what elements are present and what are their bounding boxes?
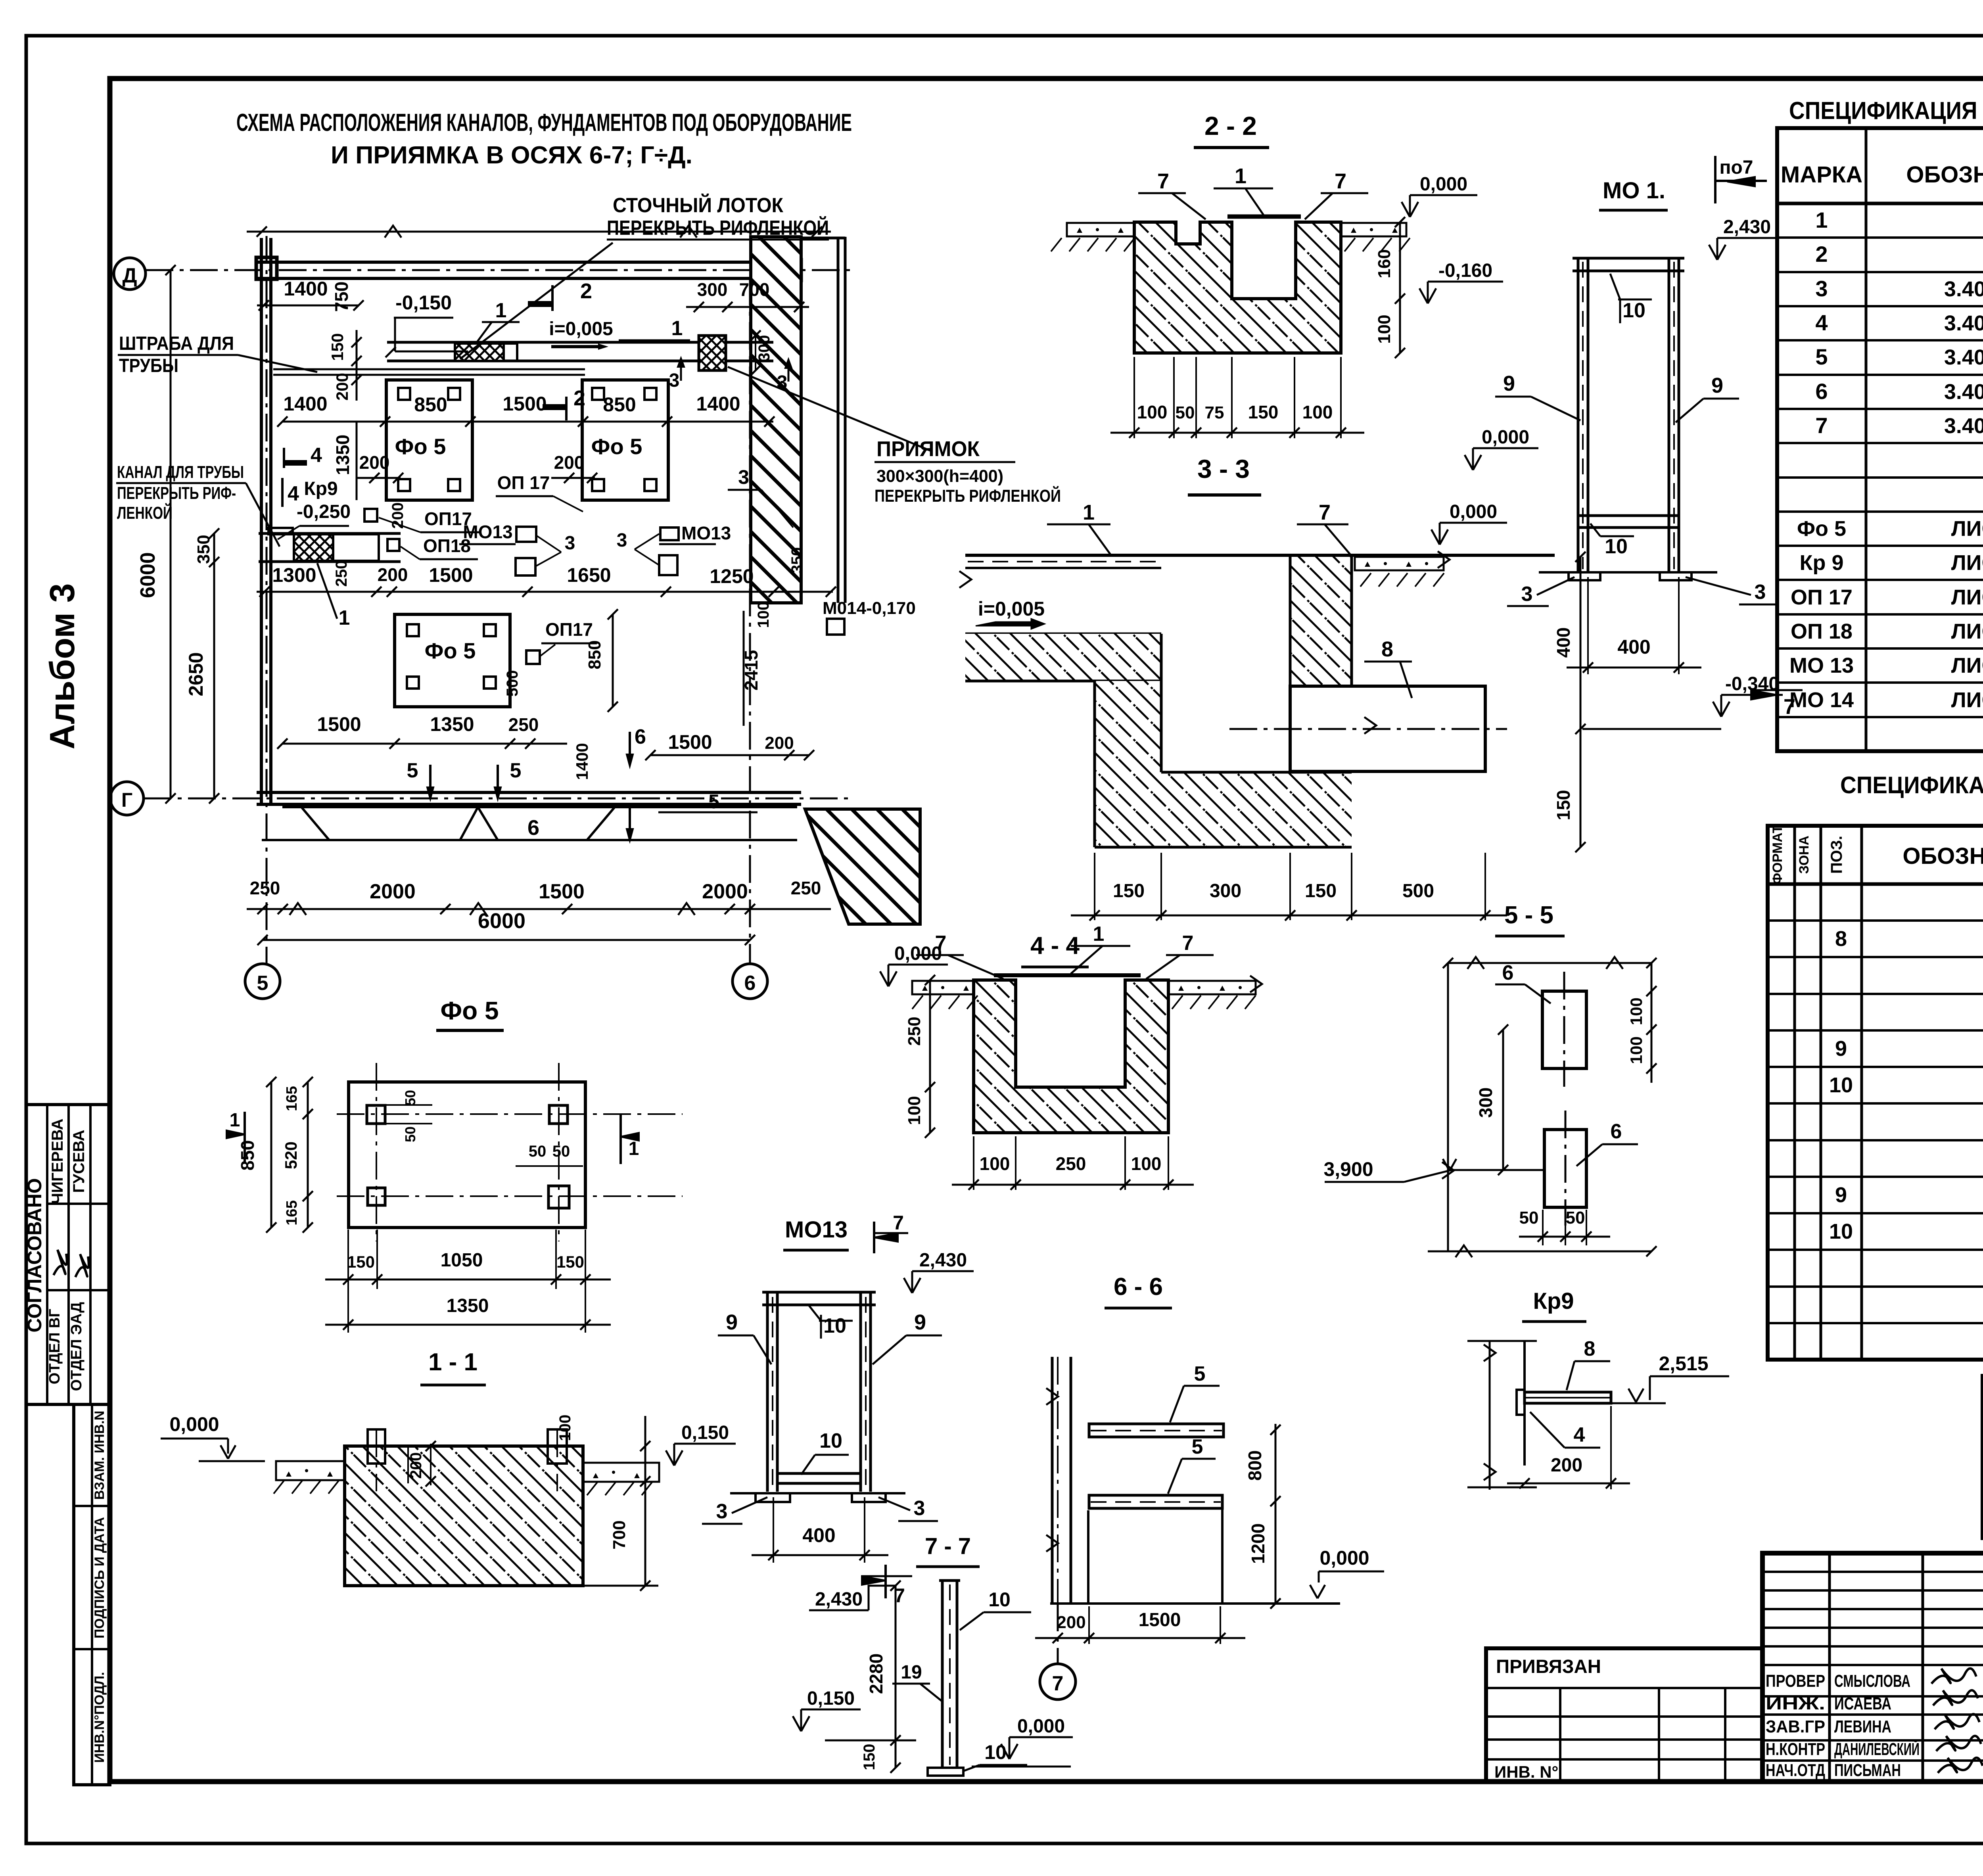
svg-text:Кр9: Кр9 <box>1533 1288 1574 1314</box>
svg-text:19: 19 <box>901 1662 922 1683</box>
lower channel hatched cover <box>294 534 333 561</box>
svg-text:5: 5 <box>257 972 268 995</box>
svg-text:по7: по7 <box>1719 157 1753 178</box>
section flag 6 upper <box>629 732 631 754</box>
svg-text:50: 50 <box>1176 403 1195 422</box>
section 4-4 left floor slab <box>912 981 974 994</box>
svg-text:1400: 1400 <box>283 393 327 415</box>
svg-text:7: 7 <box>1319 501 1331 524</box>
svg-text:6: 6 <box>1502 961 1514 984</box>
svg-text:ЗОНА: ЗОНА <box>1797 836 1812 874</box>
svg-text:10: 10 <box>1829 1220 1853 1243</box>
section 3-3 pipe 8 <box>1290 686 1485 771</box>
svg-text:50: 50 <box>402 1126 418 1142</box>
svg-text:Фо 5: Фо 5 <box>425 638 476 663</box>
svg-text:200: 200 <box>554 452 585 473</box>
svg-text:ОТДЕЛ ВГ: ОТДЕЛ ВГ <box>46 1309 63 1384</box>
section 4-4 bottom dims 100 250 100 <box>973 1136 974 1190</box>
svg-text:50: 50 <box>1566 1208 1585 1228</box>
svg-text:И ПРИЯМКА В ОСЯХ 6-7; Г÷Д.: И ПРИЯМКА В ОСЯХ 6-7; Г÷Д. <box>331 142 692 169</box>
svg-text:3: 3 <box>777 372 788 393</box>
right wall hatched band <box>751 237 801 603</box>
svg-text:200: 200 <box>389 503 407 529</box>
section 5-5 right vertical dim <box>1651 963 1653 1083</box>
svg-text:1 - 1: 1 - 1 <box>428 1348 478 1376</box>
svg-text:10: 10 <box>823 1314 846 1337</box>
svg-text:ПРИВЯЗАН: ПРИВЯЗАН <box>1496 1656 1601 1677</box>
svg-text:МО13: МО13 <box>463 522 512 542</box>
svg-text:9: 9 <box>1711 374 1723 397</box>
svg-text:1: 1 <box>629 1138 639 1159</box>
plan dim row 3 (1300 200 1500 1650 1250) <box>257 591 833 593</box>
svg-text:ЛИСТ 21: ЛИСТ 21 <box>1951 620 1983 643</box>
sidebar inventory cells <box>74 1404 110 1785</box>
svg-text:МАРКА: МАРКА <box>1781 162 1862 188</box>
svg-text:СПЕЦИФИКАЦИЯ К СХЕМЕ,РАСПОЛОЖЕ: СПЕЦИФИКАЦИЯ К СХЕМЕ,РАСПОЛОЖЕННОЙ НА ЛИ… <box>1789 97 1983 125</box>
svg-text:700: 700 <box>739 279 770 300</box>
svg-text:6: 6 <box>744 972 756 995</box>
svg-text:КАНАЛ ДЛЯ ТРУБЫ: КАНАЛ ДЛЯ ТРУБЫ <box>117 462 244 482</box>
svg-text:ПОЗ.: ПОЗ. <box>1828 836 1845 874</box>
channel small white block <box>504 343 517 361</box>
section 6-6 bottom dims 200 1500 <box>1088 1606 1090 1644</box>
section 6-6 pit below <box>1087 1510 1089 1604</box>
svg-text:3.400-6/76: 3.400-6/76 <box>1944 277 1983 301</box>
svg-text:800: 800 <box>1245 1450 1265 1481</box>
svg-text:4: 4 <box>311 444 322 467</box>
svg-text:3: 3 <box>716 1500 728 1523</box>
svg-text:165: 165 <box>284 1200 300 1225</box>
svg-text:ПОДПИСЬ И ДАТА: ПОДПИСЬ И ДАТА <box>92 1517 107 1638</box>
svg-text:Фо 5: Фо 5 <box>395 434 446 459</box>
svg-text:300: 300 <box>1475 1088 1496 1118</box>
svg-text:2 - 2: 2 - 2 <box>1204 111 1257 140</box>
section 2-2 bottom dims <box>1133 357 1135 438</box>
svg-text:100: 100 <box>1131 1153 1162 1174</box>
svg-text:3 - 3: 3 - 3 <box>1197 454 1250 483</box>
svg-text:1400: 1400 <box>696 393 740 415</box>
svg-text:200: 200 <box>378 564 408 585</box>
svg-text:100: 100 <box>1302 402 1333 422</box>
svg-text:3: 3 <box>565 533 575 554</box>
svg-text:МО13: МО13 <box>785 1217 848 1243</box>
svg-text:500: 500 <box>1402 880 1434 902</box>
svg-text:ОБОЗНАЧЕНИЕ: ОБОЗНАЧЕНИЕ <box>1902 843 1983 869</box>
svg-text:7: 7 <box>1815 413 1828 438</box>
title block left columns <box>1828 1553 1831 1782</box>
svg-text:10: 10 <box>819 1429 842 1452</box>
svg-text:1300: 1300 <box>272 564 316 586</box>
svg-text:1350: 1350 <box>430 713 474 735</box>
section 4-4 cover plate <box>994 973 1141 977</box>
op17 lower square <box>526 650 540 664</box>
svg-text:1: 1 <box>1083 501 1095 524</box>
axis D wall (top) <box>257 261 800 264</box>
svg-text:75: 75 <box>1205 403 1224 422</box>
section 1-1 dim 200 at bolt <box>407 1446 409 1483</box>
svg-text:i=0,005: i=0,005 <box>549 318 613 340</box>
foundation plate Fo5 upper-left <box>386 380 472 500</box>
section 3-3 bottom dims 150 300 150 500 <box>1094 853 1095 920</box>
mo13 markers right pair <box>660 528 679 540</box>
svg-text:7: 7 <box>1335 169 1346 193</box>
svg-text:2: 2 <box>1815 242 1828 267</box>
svg-text:ОП 17: ОП 17 <box>497 472 550 493</box>
svg-text:2: 2 <box>573 386 585 410</box>
svg-text:ПРОВЕР: ПРОВЕР <box>1766 1671 1825 1691</box>
svg-text:250: 250 <box>791 878 821 898</box>
svg-text:850: 850 <box>585 640 604 669</box>
plan dim row 2 through plates <box>282 421 773 423</box>
detail MO13 dim 400 <box>773 1497 774 1563</box>
axis D right end column cap <box>782 260 801 280</box>
section flag 6 lower <box>627 829 633 841</box>
section 2-2 right floor slab <box>1341 223 1406 236</box>
svg-text:10: 10 <box>1605 535 1628 558</box>
svg-text:ОП 17: ОП 17 <box>1791 585 1853 609</box>
svg-text:150: 150 <box>1113 880 1145 902</box>
detail MO13 bottom 7 flag <box>884 1565 887 1598</box>
svg-text:0,000: 0,000 <box>1420 174 1467 195</box>
svg-text:ЛЕНКОЙ: ЛЕНКОЙ <box>117 503 173 523</box>
axis bubble 5 <box>245 964 280 999</box>
svg-text:100: 100 <box>1375 315 1394 343</box>
svg-text:200: 200 <box>1057 1613 1085 1632</box>
svg-text:3: 3 <box>1815 276 1828 301</box>
svg-text:Н.КОНТР: Н.КОНТР <box>1766 1740 1825 1759</box>
section 4-4 left dims 250/100 <box>929 980 931 1133</box>
svg-text:200: 200 <box>1551 1455 1582 1476</box>
svg-text:ДАНИЛЕВСКИЙ: ДАНИЛЕВСКИЙ <box>1834 1739 1920 1759</box>
section 4-4 U-shaped concrete <box>974 980 1168 1133</box>
section 7-7 channel post <box>941 1581 944 1768</box>
title block signatures <box>1931 1669 1976 1684</box>
svg-text:ОП17: ОП17 <box>545 619 593 640</box>
svg-text:3: 3 <box>914 1497 925 1520</box>
detail Fo5 centerlines <box>337 1113 683 1115</box>
svg-text:СПЕЦИФИКАЦИЯ К КРОНШТЕЙНУ И ОП: СПЕЦИФИКАЦИЯ К КРОНШТЕЙНУ И ОПОРАМ. <box>1840 772 1983 798</box>
svg-text:3.400-6/76: 3.400-6/76 <box>1944 414 1983 438</box>
foundation plate Fo5 upper-right <box>582 380 668 500</box>
svg-text:9: 9 <box>726 1310 738 1334</box>
axis 5 wall column (left) <box>260 238 263 804</box>
svg-text:50: 50 <box>552 1143 570 1160</box>
svg-text:1350: 1350 <box>332 435 353 475</box>
svg-text:5: 5 <box>1194 1362 1206 1385</box>
svg-text:6000: 6000 <box>478 909 525 933</box>
plan overall dim 6000 <box>263 939 750 941</box>
section 1-1 concrete block <box>345 1446 583 1586</box>
svg-text:Кр9: Кр9 <box>304 478 338 499</box>
section 5-5 left vertical line <box>1447 963 1449 1251</box>
svg-text:200: 200 <box>359 452 390 473</box>
section 3-3 hatched bottom slab <box>1161 772 1352 847</box>
svg-text:Кр 9: Кр 9 <box>1800 551 1844 575</box>
svg-text:ОП 18: ОП 18 <box>1791 620 1853 643</box>
svg-text:-0,160: -0,160 <box>1438 260 1492 281</box>
svg-text:150: 150 <box>347 1253 375 1271</box>
plan dim row 1400/750 (top) <box>257 305 359 307</box>
svg-text:2650: 2650 <box>185 652 207 696</box>
svg-text:350: 350 <box>788 547 806 574</box>
svg-text:9: 9 <box>914 1310 926 1334</box>
svg-text:5: 5 <box>510 759 522 782</box>
svg-text:750: 750 <box>331 282 352 312</box>
lower channel (kanal dlya truby) <box>259 532 401 535</box>
op17 marker square middle <box>364 509 377 522</box>
svg-text:МО 14: МО 14 <box>1789 688 1854 712</box>
svg-text:4: 4 <box>288 482 299 505</box>
svg-text:100: 100 <box>905 1096 924 1125</box>
section 1-1 left floor slab <box>276 1461 345 1480</box>
svg-text:200: 200 <box>407 1452 425 1479</box>
svg-text:850: 850 <box>414 393 447 416</box>
plan bottom dim row (250 2000 1500 2000 250) <box>247 908 831 910</box>
svg-text:1500: 1500 <box>502 393 547 415</box>
svg-text:5: 5 <box>407 759 418 782</box>
section 2-2 right dim 160/100 <box>1399 222 1401 353</box>
svg-text:3.400-6/76: 3.400-6/76 <box>1944 311 1983 335</box>
svg-text:3,900: 3,900 <box>1323 1158 1373 1180</box>
axis G wall (bottom) <box>257 791 801 794</box>
svg-text:8: 8 <box>1584 1337 1596 1360</box>
svg-text:3: 3 <box>1521 583 1533 606</box>
svg-text:8: 8 <box>1835 927 1847 951</box>
svg-text:i=0,005: i=0,005 <box>978 598 1045 620</box>
svg-text:2,515: 2,515 <box>1659 1352 1708 1375</box>
svg-text:ИСАЕВА: ИСАЕВА <box>1834 1694 1891 1713</box>
svg-text:ОТДЕЛ ЭАД: ОТДЕЛ ЭАД <box>68 1302 85 1391</box>
svg-text:2,430: 2,430 <box>1723 217 1771 238</box>
section 2-2 cover plate <box>1227 215 1301 219</box>
svg-text:50: 50 <box>1519 1208 1539 1228</box>
svg-text:6: 6 <box>1611 1120 1622 1143</box>
svg-text:-0,150: -0,150 <box>395 292 452 314</box>
svg-text:400: 400 <box>1617 636 1650 658</box>
svg-text:5: 5 <box>1192 1435 1203 1458</box>
svg-text:520: 520 <box>282 1141 300 1169</box>
section 3-3 top line <box>965 554 1555 557</box>
dim 1500 200 at G axis right <box>650 754 809 756</box>
axis G centerline <box>144 798 853 800</box>
svg-text:250: 250 <box>1056 1153 1086 1174</box>
mo14 marker right <box>827 619 844 635</box>
plan left vertical dims 6000 / 2650 / 350 <box>170 270 172 798</box>
svg-text:Альбом 3: Альбом 3 <box>42 583 82 750</box>
svg-text:СМЫСЛОВА: СМЫСЛОВА <box>1834 1671 1910 1691</box>
detail MO1 bottom section 7 flag <box>1776 676 1778 714</box>
svg-text:1400: 1400 <box>284 278 328 300</box>
svg-text:Фо 5: Фо 5 <box>591 434 642 459</box>
section 6-6 ground line <box>1050 1602 1340 1605</box>
section 3-3 hatched floor slab <box>965 634 1161 681</box>
svg-text:1200: 1200 <box>1248 1523 1268 1564</box>
svg-text:10: 10 <box>1829 1073 1853 1097</box>
svg-text:1: 1 <box>1815 207 1828 232</box>
svg-text:160: 160 <box>1375 249 1394 278</box>
svg-text:М014-0,170: М014-0,170 <box>823 598 916 618</box>
svg-text:ЛИСТ 21: ЛИСТ 21 <box>1951 517 1983 541</box>
svg-text:Фо 5: Фо 5 <box>440 996 499 1025</box>
section 3-3 slab line <box>965 633 1161 635</box>
axis bubble 7 for 6-6 <box>1040 1664 1076 1700</box>
svg-text:7: 7 <box>1157 169 1169 193</box>
svg-text:9: 9 <box>1503 372 1515 395</box>
svg-text:ПИСЬМАН: ПИСЬМАН <box>1834 1761 1901 1780</box>
svg-text:1500: 1500 <box>668 731 712 753</box>
svg-text:0,150: 0,150 <box>807 1688 855 1709</box>
section 6-6 plate 5 upper <box>1089 1424 1224 1437</box>
svg-text:Д: Д <box>122 264 137 287</box>
svg-text:100: 100 <box>556 1415 574 1441</box>
svg-text:0,150: 0,150 <box>681 1422 729 1443</box>
svg-text:2: 2 <box>580 279 592 303</box>
section 3-3 right floor slab <box>1355 557 1444 570</box>
svg-text:0,000: 0,000 <box>1319 1547 1369 1569</box>
svg-text:ЛИСТ 21: ЛИСТ 21 <box>1951 585 1983 609</box>
plan dim row 4 (1500 1350 250) <box>282 743 567 745</box>
section 1-1 anchor bolts <box>368 1429 385 1464</box>
detail Fo5 bottom dims <box>347 1230 349 1333</box>
svg-text:1: 1 <box>1235 164 1247 188</box>
svg-text:300: 300 <box>697 279 728 300</box>
svg-text:300: 300 <box>1210 880 1241 902</box>
axis 6 centerline <box>749 278 751 964</box>
svg-text:3.400-6/76: 3.400-6/76 <box>1944 345 1983 369</box>
section 6-6 right dims 800/1200 <box>1275 1424 1277 1604</box>
svg-text:0,000: 0,000 <box>1482 427 1529 448</box>
channel cover hatched block 1 <box>455 343 504 361</box>
svg-text:100: 100 <box>1627 997 1645 1025</box>
svg-text:0,000: 0,000 <box>169 1413 219 1435</box>
svg-text:ГУСЕВА: ГУСЕВА <box>70 1130 88 1193</box>
svg-text:350: 350 <box>194 535 213 564</box>
svg-text:300: 300 <box>756 335 773 362</box>
svg-text:400: 400 <box>1553 627 1574 658</box>
svg-text:2000: 2000 <box>702 880 748 903</box>
foundation plate Fo5 lower <box>395 614 510 707</box>
section 5-5 bottom line <box>1428 1251 1651 1253</box>
svg-text:250: 250 <box>333 560 350 587</box>
svg-text:400: 400 <box>802 1524 835 1546</box>
section 5-5 plate 6 lower <box>1544 1130 1586 1207</box>
svg-text:ПЕРЕКРЫТЬ РИФЛЕНКОЙ: ПЕРЕКРЫТЬ РИФЛЕНКОЙ <box>875 485 1061 506</box>
detail MO1 frame <box>1577 258 1580 572</box>
section 7-7 dim 2280 <box>895 1586 897 1768</box>
drain channel (stochny lotok) lines <box>387 341 773 344</box>
svg-text:3: 3 <box>738 466 749 488</box>
svg-text:4: 4 <box>1815 310 1828 335</box>
svg-text:6000: 6000 <box>136 552 159 598</box>
section 5-5 plate 6 upper <box>1542 991 1586 1068</box>
svg-text:1650: 1650 <box>567 564 611 586</box>
svg-text:9: 9 <box>1835 1183 1847 1207</box>
svg-text:1500: 1500 <box>539 880 585 903</box>
svg-text:500: 500 <box>504 670 521 697</box>
svg-text:ЛЕВИНА: ЛЕВИНА <box>1834 1717 1891 1736</box>
svg-text:7 - 7: 7 - 7 <box>925 1533 971 1559</box>
svg-text:6: 6 <box>1815 379 1828 404</box>
svg-text:ЗАВ.ГР: ЗАВ.ГР <box>1766 1717 1825 1736</box>
svg-text:200: 200 <box>765 733 794 753</box>
svg-text:100: 100 <box>1137 402 1168 422</box>
detail MO13 section 7 flag <box>873 1222 875 1253</box>
plan: top broken dimension line <box>247 231 831 233</box>
section flag 2 top <box>551 285 554 311</box>
kr9 bracket mark <box>268 528 293 534</box>
svg-text:700: 700 <box>610 1520 629 1549</box>
svg-text:1: 1 <box>230 1110 240 1131</box>
right wall outer leaf lines <box>837 237 840 603</box>
svg-text:200: 200 <box>333 373 351 401</box>
svg-text:100: 100 <box>1627 1036 1645 1064</box>
svg-text:СХЕМА РАСПОЛОЖЕНИЯ КАНАЛОВ, ФУ: СХЕМА РАСПОЛОЖЕНИЯ КАНАЛОВ, ФУНДАМЕНТОВ … <box>236 109 852 136</box>
svg-text:ФОРМАТ: ФОРМАТ <box>1770 825 1785 884</box>
svg-text:МО13: МО13 <box>681 523 731 543</box>
svg-text:850: 850 <box>603 393 636 416</box>
detail MO13 ground line and plates <box>730 1492 905 1494</box>
svg-text:3: 3 <box>1755 581 1766 604</box>
svg-text:6: 6 <box>527 816 539 840</box>
svg-text:150: 150 <box>556 1253 584 1271</box>
section 6-6 plate 5 lower <box>1089 1495 1222 1508</box>
svg-text:ПЕРЕКРЫТЬ РИФ-: ПЕРЕКРЫТЬ РИФ- <box>117 483 236 503</box>
svg-text:6: 6 <box>635 725 646 748</box>
svg-text:НАЧ.ОТД: НАЧ.ОТД <box>1766 1761 1825 1780</box>
svg-text:0,000: 0,000 <box>1017 1716 1065 1737</box>
svg-text:2,430: 2,430 <box>815 1589 863 1610</box>
svg-text:Г: Г <box>121 789 132 811</box>
detail Kr9 wall line <box>1523 1341 1526 1466</box>
axis D centerline <box>146 269 853 271</box>
svg-text:10: 10 <box>988 1588 1011 1611</box>
detail Fo5 section 1-1 flags <box>244 1112 246 1162</box>
spec table 1 grid <box>1777 128 1983 751</box>
svg-text:3: 3 <box>617 530 627 551</box>
svg-text:ЛИСТ 21: ЛИСТ 21 <box>1951 688 1983 712</box>
svg-text:165: 165 <box>284 1086 300 1111</box>
axis bubble G <box>110 782 144 815</box>
axis 5 centerline <box>266 236 268 964</box>
svg-text:150: 150 <box>328 333 347 361</box>
svg-text:СОГЛАСОВАНО: СОГЛАСОВАНО <box>23 1178 46 1332</box>
svg-text:150: 150 <box>1305 880 1337 902</box>
svg-text:0,000: 0,000 <box>894 943 942 964</box>
sidebar approval block <box>26 1105 110 1404</box>
svg-text:250: 250 <box>250 878 280 898</box>
svg-text:7: 7 <box>893 1212 904 1234</box>
detail Fo5 left rotated dims <box>307 1082 309 1228</box>
svg-text:1500: 1500 <box>429 564 473 586</box>
svg-text:150: 150 <box>1248 402 1279 422</box>
detail MO1 ground line and plates <box>1539 571 1717 574</box>
svg-text:150: 150 <box>861 1744 878 1770</box>
detail Kr9 bracket arm <box>1525 1392 1611 1403</box>
svg-text:2280: 2280 <box>866 1653 886 1694</box>
svg-text:-0,250: -0,250 <box>297 501 351 522</box>
svg-text:Фо 5: Фо 5 <box>1797 517 1846 541</box>
detail MO13 frame <box>766 1292 769 1492</box>
svg-text:5: 5 <box>1815 344 1828 369</box>
svg-text:ЛИСТ 21: ЛИСТ 21 <box>1951 654 1983 677</box>
svg-text:2,430: 2,430 <box>919 1250 967 1271</box>
section 2-2 concrete body <box>1134 222 1341 353</box>
axis bubble D <box>114 258 146 290</box>
svg-text:3.400-6/76: 3.400-6/76 <box>1944 380 1983 404</box>
svg-text:2000: 2000 <box>370 880 416 903</box>
lower channel white cover <box>333 534 379 561</box>
svg-text:6 - 6: 6 - 6 <box>1114 1273 1163 1301</box>
